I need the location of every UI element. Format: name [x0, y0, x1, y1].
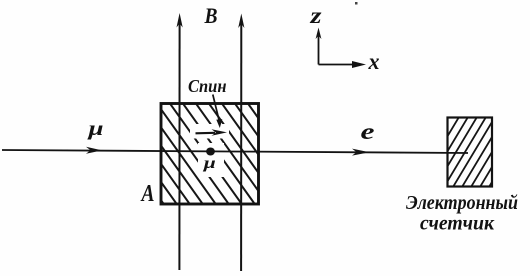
- svg-text:x: x: [368, 49, 380, 74]
- svg-text:счетчик: счетчик: [420, 213, 495, 235]
- spin pointer arrowhead: [216, 119, 222, 128]
- svg-text:e: e: [361, 119, 375, 144]
- magnet box hatching: [88, 98, 324, 210]
- coordinate axes x: [319, 64, 356, 66]
- magnet box outline: [161, 104, 259, 205]
- z axis arrowhead: [316, 28, 322, 40]
- svg-text:B: B: [204, 3, 218, 28]
- field line B left arrowhead: [177, 13, 183, 28]
- beam line (muon to electron counter): [2, 150, 468, 153]
- electron counter outline: [448, 118, 493, 187]
- beam arrow right (electron): [352, 149, 370, 156]
- field line B right: [240, 22, 242, 271]
- coordinate axes z: [318, 33, 320, 65]
- svg-text:μ: μ: [87, 118, 103, 140]
- field line B left: [178, 22, 180, 270]
- svg-text:z: z: [309, 3, 321, 28]
- spin pointer line: [213, 95, 219, 121]
- x axis arrowhead: [352, 61, 366, 68]
- muon dot: [206, 148, 215, 156]
- hatch clearing around dot and mu label: [198, 143, 224, 177]
- hatch clearing around spin arrow: [190, 124, 229, 139]
- speck: [355, 2, 358, 5]
- field line B right arrowhead: [238, 14, 244, 29]
- spin arrow: [196, 132, 216, 135]
- electron counter hatching: [414, 112, 530, 192]
- svg-text:A: A: [140, 181, 155, 207]
- svg-text:Спин: Спин: [188, 76, 227, 96]
- beam arrow left (muon): [86, 147, 102, 154]
- svg-text:μ: μ: [202, 155, 216, 172]
- svg-text:Электронный: Электронный: [406, 192, 518, 214]
